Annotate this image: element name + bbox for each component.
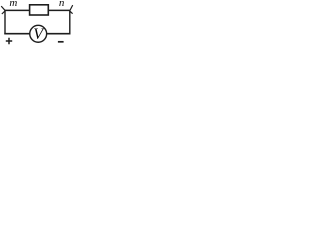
wire left vertical (4, 10, 6, 34)
polarity label minus (58, 41, 64, 43)
svg-text:n: n (59, 0, 65, 9)
resistor R (box) (30, 5, 49, 15)
voltmeter U (circle) (30, 25, 47, 42)
wire top-left (m to resistor) (5, 9, 30, 11)
terminal m mark (1, 6, 5, 14)
svg-text:m: m (9, 0, 17, 9)
wire right vertical (69, 10, 71, 34)
polarity label plus (6, 38, 12, 44)
wire top-right (resistor to n) (48, 9, 70, 11)
terminal n mark (70, 5, 73, 14)
wire bottom-right (voltmeter to corner) (47, 33, 71, 35)
wire bottom-left (corner to voltmeter) (4, 33, 29, 35)
